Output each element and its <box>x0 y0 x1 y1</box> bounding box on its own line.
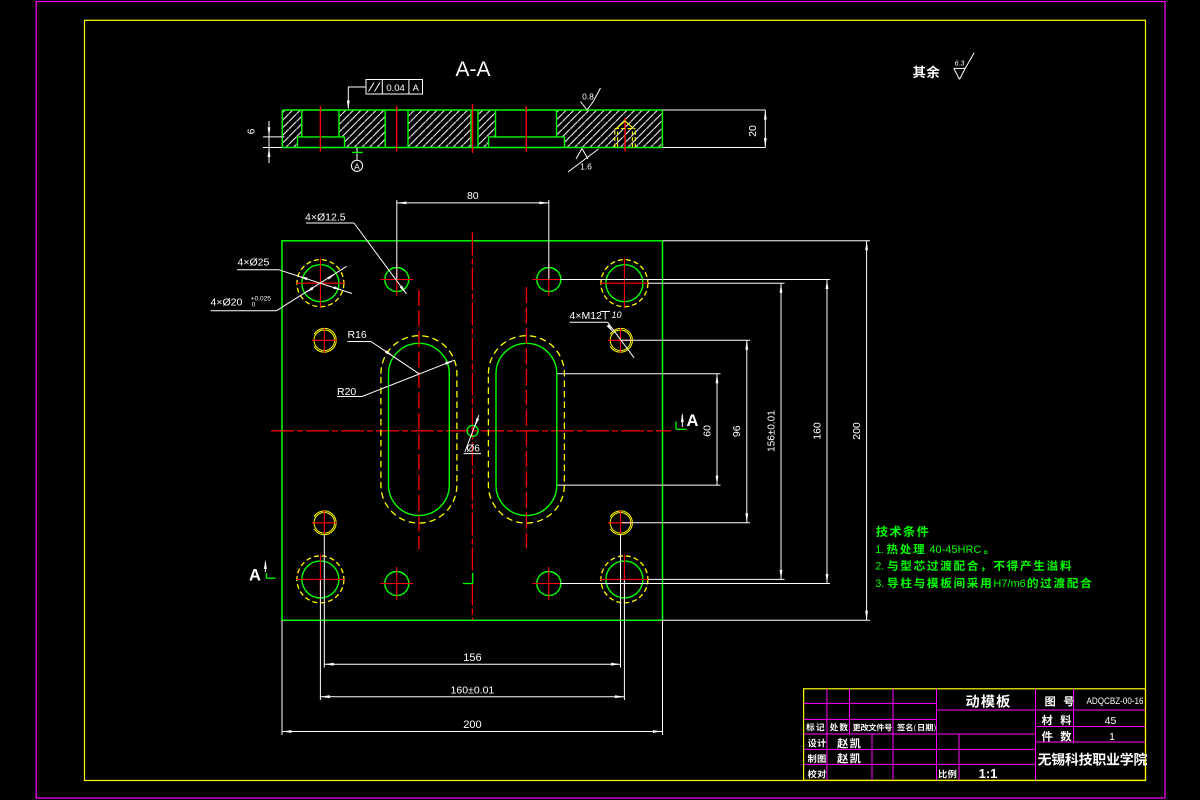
guide pillar hole top-right (Ø20/Ø25) <box>606 265 643 302</box>
svg-text:6.3: 6.3 <box>955 61 965 68</box>
Ø12.5 hole top-right <box>537 268 561 292</box>
svg-text:20: 20 <box>747 125 759 137</box>
surface finish 1.6 (bottom face) <box>576 149 582 160</box>
title block outer frame <box>804 689 1146 781</box>
svg-text:10: 10 <box>612 310 622 320</box>
right slot inner R16 <box>496 343 557 515</box>
svg-text:A: A <box>249 567 261 585</box>
svg-text:1: 1 <box>1109 731 1115 743</box>
centre hole Ø6 <box>467 425 478 436</box>
svg-text:80: 80 <box>467 190 479 202</box>
title block row lines (right) <box>1036 709 1146 711</box>
section right extension block (white outline) <box>662 109 765 111</box>
svg-text:160±0.01: 160±0.01 <box>451 684 495 696</box>
left slot centreline <box>418 290 420 549</box>
section bottom edge <box>282 147 662 149</box>
Ø12.5 hole bottom-right <box>537 572 561 596</box>
section hatch piece P3 (left of centre hole) <box>408 110 471 148</box>
title block column lines <box>826 689 828 781</box>
svg-text:Ø6: Ø6 <box>467 444 481 455</box>
horizontal centreline <box>271 430 671 432</box>
plate outline 200x200 <box>282 241 663 621</box>
section slot step shoulder edge <box>489 136 565 138</box>
section hole wall edges (green verticals) <box>301 110 303 137</box>
svg-text:4×Ø20: 4×Ø20 <box>211 297 243 309</box>
dimension 156±0.01 (guide hole rows) <box>648 282 785 284</box>
section left edge <box>281 110 283 148</box>
svg-text:4×Ø12.5: 4×Ø12.5 <box>305 212 346 224</box>
svg-text:): ) <box>934 725 936 732</box>
svg-text:4×M12: 4×M12 <box>570 310 603 322</box>
section centreline guide hole <box>319 106 321 152</box>
section hatch piece P2 (between guide hole and screw hole) <box>339 110 385 148</box>
svg-text:0.8: 0.8 <box>582 92 594 102</box>
svg-text:0: 0 <box>252 301 256 308</box>
right slot centreline <box>525 287 527 548</box>
section marker A right <box>675 422 677 430</box>
section centreline screw hole <box>396 106 398 152</box>
general roughness note 其余 <box>913 65 940 78</box>
left slot outer R20 (hidden) <box>381 336 457 523</box>
dimension 96 (M12 rows) <box>622 339 751 341</box>
M12 tapped hole top-left <box>314 330 335 351</box>
svg-text:160: 160 <box>811 422 823 440</box>
datum A symbol <box>356 148 358 161</box>
svg-text:A: A <box>413 83 420 94</box>
svg-text:ADQCBZ-00-16: ADQCBZ-00-16 <box>1087 696 1144 707</box>
svg-text:1:1: 1:1 <box>979 766 998 781</box>
Ø12.5 hole top-left <box>385 268 409 292</box>
dimension 200 (plate height) <box>663 240 871 242</box>
svg-text:A-A: A-A <box>455 58 490 81</box>
hidden M12 tapped hole in section <box>614 129 616 148</box>
dimension 156 (M12 columns) <box>323 534 325 668</box>
svg-text:1.6: 1.6 <box>580 162 592 172</box>
svg-text:200: 200 <box>463 719 481 731</box>
section hatch piece P4 (between centre hole and slot) <box>478 110 496 148</box>
svg-text:4×Ø25: 4×Ø25 <box>238 257 270 269</box>
title block row lines (left) <box>804 702 937 704</box>
section centreline centre hole <box>472 104 474 153</box>
svg-text:96: 96 <box>731 425 743 437</box>
title block texts <box>806 694 1147 781</box>
svg-text:A: A <box>354 161 360 171</box>
section marker A left <box>265 573 267 578</box>
svg-text:45: 45 <box>1105 715 1117 727</box>
svg-text:60: 60 <box>702 425 714 437</box>
svg-text:6: 6 <box>247 128 258 134</box>
svg-text:156: 156 <box>463 652 481 664</box>
section right edge <box>661 110 663 148</box>
svg-text:156±0.01: 156±0.01 <box>767 410 778 452</box>
parallelism callout frame //|0.04|A <box>366 80 423 95</box>
svg-text:2.: 2. <box>875 561 884 573</box>
section centreline slot <box>525 106 527 152</box>
M12 tapped hole top-right <box>610 330 631 351</box>
right slot outer R20 (hidden) <box>488 336 564 523</box>
M12 tapped hole bottom-right <box>610 513 631 534</box>
dimension 20 (plate thickness) <box>764 110 767 120</box>
left slot inner R16 <box>389 343 450 515</box>
svg-text:40-45HRC: 40-45HRC <box>929 544 981 556</box>
vertical centreline <box>471 233 473 621</box>
M12 tapped hole bottom-left <box>314 513 335 534</box>
svg-text:3.: 3. <box>875 578 884 590</box>
section hatch piece P5 (right of slot) <box>557 110 663 148</box>
svg-text:R16: R16 <box>348 329 367 341</box>
section hatch piece P1 (left of guide hole) <box>282 110 302 148</box>
svg-text:200: 200 <box>851 422 863 440</box>
dimension 160 (Ø12.5 rows) <box>560 279 830 281</box>
section centreline M12 thread <box>624 118 626 152</box>
guide pillar hole top-left (Ø20/Ø25) <box>302 265 339 302</box>
svg-text:0.04: 0.04 <box>386 83 405 94</box>
dimension 200 (plate width) <box>281 620 283 735</box>
section top edge <box>282 109 662 111</box>
label Ø6 with leader <box>465 415 479 452</box>
Ø12.5 hole bottom-left <box>385 572 409 596</box>
guide pillar hole bottom-left (Ø20/Ø25) <box>302 561 339 598</box>
section counterbore shoulder edge <box>298 136 345 138</box>
section line jog mark <box>463 583 473 585</box>
svg-text:1.: 1. <box>875 544 884 556</box>
svg-text:H7/m6: H7/m6 <box>993 578 1025 590</box>
dimension 160±0.01 (guide hole columns) <box>319 580 321 700</box>
dimension 6 (counterbore depth) <box>263 136 285 138</box>
svg-text:A: A <box>687 412 699 430</box>
dimension 80 (top hole spacing) <box>396 200 398 280</box>
guide pillar hole bottom-right (Ø20/Ø25) <box>606 561 643 598</box>
technical notes 技术条件 (green) <box>875 526 1091 590</box>
dimension 60 (slot arc centres) <box>558 373 721 375</box>
